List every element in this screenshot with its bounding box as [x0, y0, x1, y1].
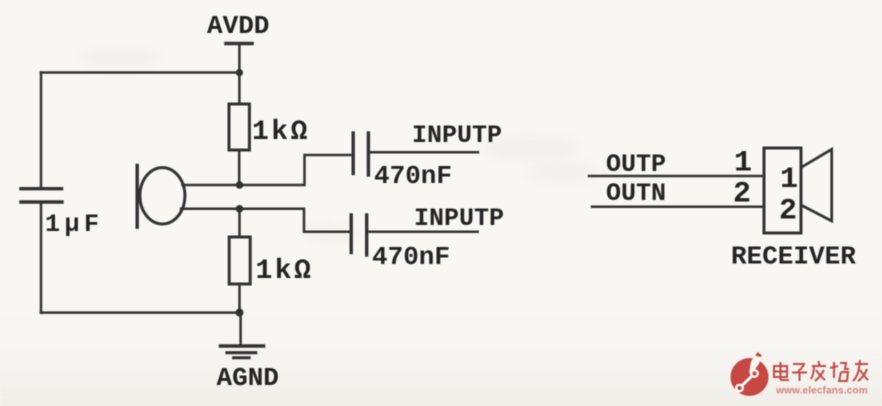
wire node D to capacitor C3 step — [240, 209, 352, 232]
ground AGND bar 1 — [221, 344, 264, 347]
svg-text:1kΩ: 1kΩ — [252, 117, 310, 148]
receiver U1 box — [764, 148, 801, 233]
ground AGND bar 3 — [234, 356, 250, 359]
svg-text:470nF: 470nF — [374, 161, 452, 191]
svg-text:INPUTP: INPUTP — [414, 204, 504, 233]
wire left branch down to capacitor C1 — [40, 73, 43, 188]
wire microphone bottom terminal to node D — [181, 208, 240, 211]
receiver U1 speaker horn — [801, 149, 832, 221]
resistor R2 body — [229, 237, 250, 284]
wire resistor R2 to node B — [238, 284, 241, 313]
node A junction dot — [236, 69, 243, 76]
capacitor C1 top plate — [21, 187, 62, 190]
wire capacitor C2 to INPUTP (underline) — [370, 151, 478, 154]
microphone MK1 back plate bar — [135, 166, 138, 228]
ground AGND bar 2 — [227, 351, 256, 354]
node B junction dot — [236, 309, 244, 317]
wire bottom rail to node B — [41, 311, 240, 314]
wire capacitor C3 to INPUTP (underline) — [369, 230, 478, 233]
watermark elecfans logo disc — [731, 352, 769, 396]
char zi — [793, 363, 805, 365]
svg-text:1: 1 — [734, 147, 752, 181]
svg-text:OUTN: OUTN — [606, 179, 666, 208]
capacitor C2 left plate — [352, 133, 355, 174]
wire node C to capacitor C2 step — [240, 155, 352, 185]
svg-text:OUTP: OUTP — [606, 150, 666, 179]
char shao — [833, 362, 835, 378]
svg-text:INPUTP: INPUTP — [412, 121, 502, 150]
wire node A to resistor R1 top — [238, 73, 241, 105]
wire node D to resistor R2 top — [238, 209, 241, 237]
wire capacitor C1 to bottom rail — [40, 204, 43, 313]
node C junction dot — [236, 181, 244, 189]
capacitor C3 left plate — [350, 215, 353, 253]
capacitor C3 right plate — [365, 215, 368, 255]
wire AVDD bar to node A — [238, 45, 241, 73]
capacitor C2 right plate — [367, 133, 370, 175]
char fa — [812, 365, 826, 367]
wire OUTP to receiver pin 1 — [589, 175, 764, 178]
wire node B to ground — [239, 313, 242, 345]
svg-text:1: 1 — [780, 163, 798, 197]
svg-text:1μF: 1μF — [45, 210, 104, 239]
svg-text:RECEIVER: RECEIVER — [731, 242, 856, 272]
capacitor C1 bottom plate — [21, 200, 62, 203]
svg-text:2: 2 — [733, 178, 751, 212]
wire node A left to C1 branch — [41, 71, 239, 74]
svg-text:470nF: 470nF — [372, 242, 450, 272]
node D junction dot — [236, 205, 244, 213]
svg-text:AVDD: AVDD — [207, 11, 269, 41]
power symbol AVDD bar — [226, 42, 252, 46]
watermark text dianzifashaoyou (drawn glyphs) — [774, 360, 868, 381]
char you — [855, 363, 868, 365]
svg-text:1kΩ: 1kΩ — [256, 256, 314, 287]
resistor R1 body — [229, 104, 249, 150]
wire OUTN to receiver pin 2 — [592, 206, 764, 209]
wire resistor R1 to node C — [238, 150, 241, 185]
char dian — [774, 366, 787, 377]
microphone MK1 body circle — [140, 168, 185, 224]
svg-text:2: 2 — [779, 195, 797, 229]
svg-text:www.elecfans.com: www.elecfans.com — [775, 386, 868, 397]
svg-text:AGND: AGND — [217, 363, 279, 393]
wire microphone top terminal to node C — [183, 184, 240, 187]
